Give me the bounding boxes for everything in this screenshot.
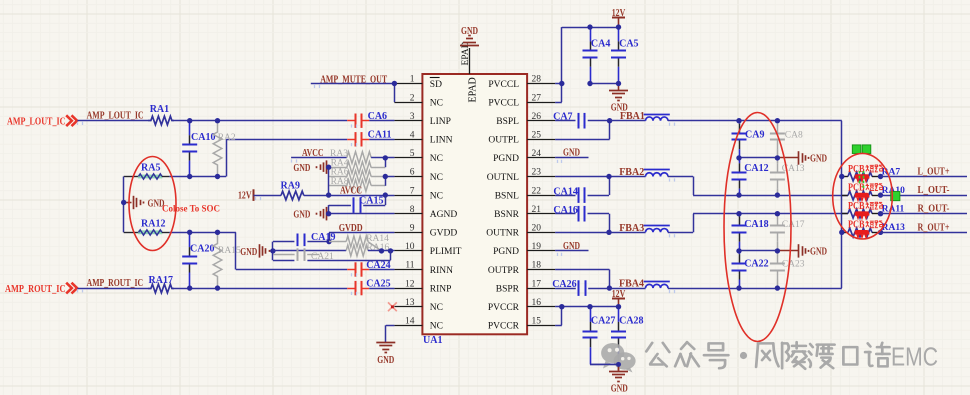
svg-text:GND: GND bbox=[240, 247, 257, 258]
svg-text:CA9: CA9 bbox=[745, 130, 764, 141]
svg-text:GND: GND bbox=[461, 26, 478, 37]
svg-text:OUTPL: OUTPL bbox=[488, 136, 519, 146]
svg-text:RA5: RA5 bbox=[141, 163, 160, 174]
svg-text:PCB: PCB bbox=[848, 183, 865, 194]
svg-text:PGND: PGND bbox=[493, 247, 519, 257]
svg-text:8: 8 bbox=[410, 205, 415, 215]
svg-text:AMP_ROUT_IC: AMP_ROUT_IC bbox=[87, 278, 144, 289]
svg-text:AMP_LOUT_IC: AMP_LOUT_IC bbox=[7, 117, 66, 128]
svg-text:13: 13 bbox=[405, 298, 415, 308]
svg-text:CA12: CA12 bbox=[744, 163, 768, 174]
svg-text:RA11: RA11 bbox=[882, 205, 905, 215]
svg-text:19: 19 bbox=[532, 242, 542, 252]
svg-text:6: 6 bbox=[410, 168, 415, 178]
svg-text:CA22: CA22 bbox=[744, 259, 768, 270]
svg-text:BSPL: BSPL bbox=[496, 117, 519, 127]
svg-text:21: 21 bbox=[532, 205, 542, 215]
svg-text:GND: GND bbox=[810, 153, 827, 164]
svg-text:NC: NC bbox=[430, 154, 443, 164]
svg-text:GVDD: GVDD bbox=[430, 229, 458, 239]
svg-text:NC: NC bbox=[430, 322, 443, 332]
svg-text:7: 7 bbox=[410, 186, 415, 196]
svg-text:GND: GND bbox=[810, 246, 827, 257]
svg-text:CA17: CA17 bbox=[782, 220, 805, 230]
svg-text:CA20: CA20 bbox=[190, 244, 214, 255]
svg-text:FBA1: FBA1 bbox=[620, 111, 645, 122]
svg-text:CA28: CA28 bbox=[619, 315, 643, 326]
svg-text:RA16: RA16 bbox=[367, 243, 390, 253]
svg-text:AMP_ROUT_IC: AMP_ROUT_IC bbox=[5, 284, 66, 295]
svg-text:CA14: CA14 bbox=[553, 186, 577, 197]
svg-text:PVCCL: PVCCL bbox=[488, 98, 519, 108]
svg-text:OUTNL: OUTNL bbox=[487, 173, 519, 183]
svg-text:26: 26 bbox=[532, 112, 542, 122]
svg-text:CA4: CA4 bbox=[591, 39, 610, 50]
svg-text:23: 23 bbox=[532, 168, 542, 178]
svg-text:LINN: LINN bbox=[430, 136, 453, 146]
svg-text:OUTPR: OUTPR bbox=[488, 266, 520, 276]
svg-text:20: 20 bbox=[532, 224, 542, 234]
svg-text:PCB: PCB bbox=[848, 220, 865, 231]
svg-text:25: 25 bbox=[532, 131, 542, 141]
svg-text:GND: GND bbox=[293, 163, 310, 174]
svg-text:CA27: CA27 bbox=[591, 315, 615, 326]
svg-text:27: 27 bbox=[532, 93, 542, 103]
svg-text:14: 14 bbox=[405, 317, 415, 327]
svg-text:18: 18 bbox=[532, 261, 542, 271]
svg-text:BSPR: BSPR bbox=[496, 284, 520, 294]
svg-text:RA7: RA7 bbox=[882, 167, 901, 177]
svg-text:RA12: RA12 bbox=[141, 219, 165, 230]
svg-text:CA26: CA26 bbox=[552, 279, 576, 290]
svg-text:RA15: RA15 bbox=[218, 246, 241, 256]
svg-text:RINN: RINN bbox=[430, 266, 453, 276]
svg-text:UA1: UA1 bbox=[423, 335, 442, 346]
svg-text:BSNR: BSNR bbox=[494, 210, 519, 220]
svg-text:CA16: CA16 bbox=[553, 205, 577, 216]
svg-text:16: 16 bbox=[532, 298, 542, 308]
svg-text:3: 3 bbox=[410, 112, 415, 122]
svg-text:2: 2 bbox=[410, 93, 415, 103]
svg-text:R_OUT-: R_OUT- bbox=[918, 204, 950, 215]
svg-text:L_OUT-: L_OUT- bbox=[918, 185, 950, 196]
svg-text:12V: 12V bbox=[238, 191, 252, 202]
svg-text:AGND: AGND bbox=[430, 210, 458, 220]
svg-text:LINP: LINP bbox=[430, 117, 451, 127]
svg-text:PVCCL: PVCCL bbox=[488, 80, 519, 90]
svg-text:FBA3: FBA3 bbox=[619, 223, 644, 234]
svg-text:GND: GND bbox=[611, 383, 628, 394]
svg-text:SD: SD bbox=[430, 80, 442, 90]
svg-text:Colose To SOC: Colose To SOC bbox=[162, 203, 220, 213]
svg-text:15: 15 bbox=[532, 317, 542, 327]
svg-text:EMC: EMC bbox=[891, 343, 938, 371]
svg-text:PCB: PCB bbox=[848, 164, 865, 175]
svg-text:9: 9 bbox=[410, 224, 415, 234]
svg-text:24: 24 bbox=[532, 149, 542, 159]
svg-text:PVCCR: PVCCR bbox=[488, 303, 520, 313]
svg-text:CA10: CA10 bbox=[191, 132, 215, 143]
svg-text:5: 5 bbox=[410, 149, 415, 159]
svg-text:CA8: CA8 bbox=[785, 131, 803, 141]
svg-text:GND: GND bbox=[377, 355, 394, 366]
svg-text:22: 22 bbox=[532, 186, 542, 196]
svg-text:RA1: RA1 bbox=[150, 104, 169, 115]
svg-text:R_OUT+: R_OUT+ bbox=[918, 222, 950, 233]
svg-text:PLIMIT: PLIMIT bbox=[430, 247, 462, 257]
svg-text:CA7: CA7 bbox=[553, 112, 572, 123]
svg-text:BSNL: BSNL bbox=[495, 191, 519, 201]
svg-text:EPAD: EPAD bbox=[468, 77, 479, 102]
svg-text:NC: NC bbox=[430, 98, 443, 108]
svg-text:28: 28 bbox=[532, 75, 542, 85]
svg-text:CA23: CA23 bbox=[782, 260, 805, 270]
svg-text:1: 1 bbox=[410, 75, 415, 85]
svg-text:NC: NC bbox=[430, 191, 443, 201]
svg-text:RA17: RA17 bbox=[149, 275, 173, 286]
svg-text:NC: NC bbox=[430, 173, 443, 183]
svg-text:RINP: RINP bbox=[430, 284, 452, 294]
svg-text:OUTNR: OUTNR bbox=[486, 229, 519, 239]
svg-text:FBA4: FBA4 bbox=[619, 279, 644, 290]
svg-text:PVCCR: PVCCR bbox=[488, 322, 520, 332]
svg-text:11: 11 bbox=[405, 261, 414, 271]
svg-text:FBA2: FBA2 bbox=[619, 167, 644, 178]
svg-text:4: 4 bbox=[410, 131, 415, 141]
svg-text:CA5: CA5 bbox=[619, 39, 638, 50]
svg-text:GND: GND bbox=[293, 210, 310, 221]
svg-text:NC: NC bbox=[430, 303, 443, 313]
svg-text:10: 10 bbox=[405, 242, 415, 252]
svg-text:PGND: PGND bbox=[493, 154, 519, 164]
svg-text:GND: GND bbox=[563, 241, 580, 252]
svg-text:12: 12 bbox=[405, 279, 415, 289]
svg-text:RA9: RA9 bbox=[281, 181, 300, 192]
svg-text:GND: GND bbox=[563, 148, 580, 159]
svg-text:RA2: RA2 bbox=[218, 133, 236, 143]
svg-text:L_OUT+: L_OUT+ bbox=[918, 167, 950, 178]
svg-text:CA18: CA18 bbox=[744, 219, 768, 230]
svg-text:PCB: PCB bbox=[848, 201, 865, 212]
svg-text:17: 17 bbox=[532, 279, 542, 289]
